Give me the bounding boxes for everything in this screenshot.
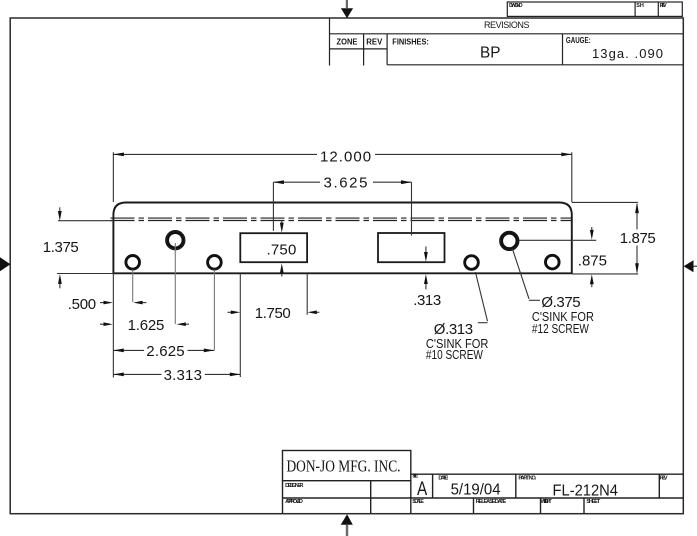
svg-text:SHEET: SHEET <box>586 499 600 505</box>
svg-text:1.750: 1.750 <box>255 305 291 322</box>
svg-text:REV: REV <box>366 38 383 47</box>
svg-text:REVISIONS: REVISIONS <box>484 20 530 30</box>
svg-text:12.000: 12.000 <box>320 149 372 166</box>
svg-text:5/19/04: 5/19/04 <box>451 482 501 499</box>
svg-text:2.625: 2.625 <box>146 343 185 360</box>
svg-text:WEIGHT: WEIGHT <box>541 499 553 505</box>
svg-text:1.625: 1.625 <box>128 317 165 334</box>
svg-text:BP: BP <box>480 45 500 62</box>
svg-text:13ga. .090: 13ga. .090 <box>592 46 663 61</box>
svg-text:1.875: 1.875 <box>620 230 656 247</box>
svg-text:3.625: 3.625 <box>324 175 370 192</box>
svg-text:SH: SH <box>636 3 644 9</box>
svg-text:3.313: 3.313 <box>164 367 203 384</box>
svg-text:DON-JO MFG. INC.: DON-JO MFG. INC. <box>287 456 401 475</box>
svg-text:REV: REV <box>660 3 667 9</box>
svg-text:GAUGE:: GAUGE: <box>566 36 591 45</box>
svg-text:ZONE: ZONE <box>337 38 359 47</box>
svg-text:DESIGNER: DESIGNER <box>285 483 303 489</box>
svg-text:RELEASE DATE: RELEASE DATE <box>476 499 507 505</box>
svg-text:.750: .750 <box>267 241 297 258</box>
svg-text:DWG NO: DWG NO <box>509 3 523 9</box>
svg-text:#10 SCREW: #10 SCREW <box>426 347 484 362</box>
svg-text:#12 SCREW: #12 SCREW <box>532 321 590 336</box>
svg-text:FL-212N4: FL-212N4 <box>553 483 619 500</box>
svg-text:.313: .313 <box>413 292 441 309</box>
svg-text:.500: .500 <box>68 296 96 313</box>
svg-text:1.375: 1.375 <box>43 239 79 256</box>
svg-text:A: A <box>417 479 427 500</box>
svg-text:FINISHES:: FINISHES: <box>392 38 429 47</box>
svg-text:APPROVED: APPROVED <box>285 499 303 505</box>
svg-text:DATE:: DATE: <box>438 476 448 482</box>
svg-text:PART NO.: PART NO. <box>518 476 536 482</box>
svg-text:SCALE: SCALE <box>412 499 424 505</box>
svg-text:.875: .875 <box>578 253 607 270</box>
svg-text:REV: REV <box>660 476 668 482</box>
